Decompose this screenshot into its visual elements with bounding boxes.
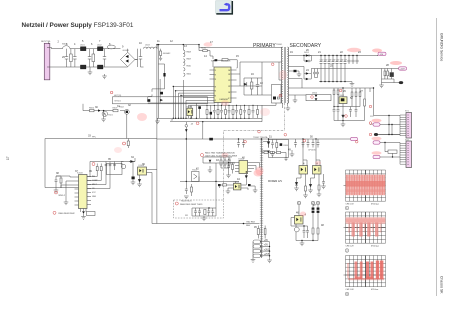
- diode D625: [309, 182, 312, 190]
- ground mid: [184, 196, 189, 199]
- op-amp IC605 standby controller: [235, 159, 252, 174]
- svg-text:IC680: IC680: [187, 106, 193, 108]
- wire snubber rails: [244, 62, 262, 95]
- node oval in3: [373, 141, 380, 144]
- wire t602 right cluster: [263, 140, 288, 158]
- svg-text:+12V: +12V: [400, 68, 405, 70]
- node +5V(S) output oval: [377, 52, 386, 56]
- svg-text:GND: GND: [92, 196, 97, 198]
- diode D641: [267, 151, 270, 154]
- capacitor C662 black: [294, 70, 297, 72]
- capacitor C628 C629: [303, 226, 309, 238]
- svg-text:C53: C53: [328, 60, 331, 62]
- bridge rectifier GL601: [121, 49, 135, 67]
- resistor chain sec: [262, 149, 286, 156]
- svg-text:CH1 5.0V: CH1 5.0V: [346, 289, 355, 291]
- ground opto606: [226, 191, 231, 194]
- wire pfc bottom pins: [81, 209, 87, 213]
- inductor L603: [144, 45, 158, 49]
- resistor R608: [127, 139, 129, 149]
- ground sec chain: [290, 150, 295, 157]
- ground T602 right: [267, 260, 272, 263]
- resistor R603 startup: [159, 49, 171, 61]
- annotation smudges pink: [114, 42, 402, 216]
- capacitor bank C651-C657: [320, 56, 347, 82]
- wire vcc rail below IC601: [200, 103, 276, 105]
- ground regulator: [341, 121, 346, 127]
- svg-text:HOT(S): HOT(S): [114, 95, 121, 97]
- capacitor C625: [285, 156, 288, 161]
- resistor network CR30: [382, 69, 400, 86]
- capacitor C609 black: [160, 92, 163, 95]
- zener D624: [295, 182, 298, 188]
- capacitor C620: [227, 163, 235, 173]
- optocoupler IC608: [313, 166, 322, 175]
- wire opto606 pins: [228, 181, 248, 191]
- title Netzteil / Power Supply: [22, 22, 134, 29]
- wire standby feed row: [203, 157, 235, 208]
- label cap bank values: [320, 60, 347, 62]
- capacitor C612 trio: [105, 165, 116, 166]
- capacitor C614 left: [55, 176, 61, 186]
- svg-text:WS1-2: WS1-2: [59, 195, 66, 197]
- ground pfc left2: [64, 190, 69, 205]
- svg-text:4: 4: [215, 86, 216, 88]
- wire ic605 right: [252, 163, 260, 171]
- wire opto610 out: [189, 109, 200, 118]
- node circle C633: [185, 125, 188, 128]
- node circled g1: [345, 206, 349, 210]
- diode D602 snubber: [244, 82, 247, 86]
- wire regulator bottom rail: [334, 120, 365, 122]
- diode D604: [129, 158, 135, 163]
- capacitor C660 C661: [313, 69, 319, 78]
- svg-text:14: 14: [228, 70, 230, 72]
- capacitor C622: [185, 186, 188, 194]
- component SP601 box: [388, 150, 397, 153]
- wire oval to bundle: [380, 124, 400, 126]
- resistor pair reg top: [333, 90, 339, 107]
- resistor R606: [89, 107, 95, 111]
- svg-text:C57: C57: [344, 60, 347, 62]
- svg-text:3: 3: [215, 79, 216, 81]
- resistor column PFC right: [87, 164, 110, 189]
- resistor R623: [191, 184, 193, 196]
- diode D620: [245, 174, 248, 182]
- node oval in4: [373, 155, 380, 158]
- svg-text:C54: C54: [332, 60, 335, 62]
- wire T602 taps: [261, 242, 270, 260]
- wire oval3 to bundle: [380, 143, 400, 144]
- svg-text:IC603: IC603: [77, 172, 83, 174]
- capacitor C613 black: [132, 177, 135, 180]
- svg-text:+5V: +5V: [264, 245, 269, 247]
- junction dots mid: [186, 138, 263, 182]
- junction dots ST1: [388, 115, 392, 135]
- diode D603: [98, 109, 101, 111]
- svg-text:R660 R661 R662 TL431: R660 R661 R662 TL431: [180, 204, 203, 206]
- node red circle ic601gnd: [196, 122, 199, 125]
- svg-text:R640 R641 R642: R640 R641 R642: [59, 213, 76, 215]
- label +B tiny: [171, 120, 194, 126]
- capacitor C601 X2: [65, 49, 68, 67]
- resistor R605 snubber: [251, 78, 253, 95]
- capacitor C604 Y: [103, 49, 106, 67]
- capacitor C624: [242, 139, 245, 148]
- connector ST1: [405, 110, 412, 138]
- ground pfc bottom: [81, 214, 86, 219]
- junction dots secondary rail: [303, 55, 357, 83]
- ground aux pin2: [293, 100, 298, 103]
- wire pfc vcc row: [90, 162, 135, 177]
- svg-text:M 10.0µs: M 10.0µs: [371, 246, 379, 248]
- ground rail secondary caps: [319, 82, 352, 84]
- label T602 taps red: [264, 240, 270, 256]
- svg-text:D656: D656: [312, 93, 318, 95]
- junction dot r610: [198, 44, 199, 45]
- tick grid1: [344, 185, 346, 187]
- ground opto cluster: [294, 186, 326, 198]
- ground mains filter: [88, 67, 93, 75]
- resistor R630: [218, 184, 228, 188]
- wire SP601: [385, 143, 393, 158]
- resistor R602: [92, 49, 95, 67]
- wire N bottom: [50, 66, 128, 68]
- resistor R627: [318, 185, 320, 194]
- resistor R620: [232, 163, 234, 174]
- diode D651 D652: [304, 52, 311, 63]
- choke L601 common-mode: [80, 45, 86, 69]
- svg-text:M 2.0ms: M 2.0ms: [371, 289, 378, 291]
- svg-text:CH1 0.5V: CH1 0.5V: [346, 204, 355, 206]
- ground lower cluster: [300, 243, 305, 246]
- node black oval NC: [399, 81, 403, 84]
- node circled g3: [345, 292, 349, 296]
- shield box NT601: [113, 95, 208, 104]
- wire C613: [132, 162, 134, 183]
- junction dot relay: [103, 110, 104, 111]
- svg-text:TR601: TR601: [276, 44, 283, 46]
- transformer TR601 primary winding: [281, 47, 282, 103]
- pin labels pfc: [92, 176, 98, 198]
- svg-text:R610: R610: [201, 48, 207, 50]
- svg-text:+9V: +9V: [264, 240, 269, 242]
- wire left pfc pins: [56, 176, 75, 190]
- svg-text:R609: R609: [187, 59, 191, 61]
- ground T601: [101, 117, 106, 122]
- wire second bus: [158, 44, 160, 49]
- capacitor C626: [322, 174, 325, 186]
- svg-text:11: 11: [228, 86, 230, 88]
- wire opto out: [147, 170, 157, 224]
- fuse SI601: [62, 44, 70, 49]
- wire lower cluster rails: [291, 226, 318, 243]
- ground standby row: [208, 170, 213, 173]
- ground D605: [137, 184, 142, 187]
- svg-text:S606: S606: [187, 74, 191, 76]
- transformer T602 windings: [253, 240, 261, 258]
- svg-text:C684: C684: [283, 145, 289, 147]
- node red test point: [110, 91, 113, 94]
- junction dots ST2: [384, 142, 393, 158]
- svg-text:PRIMARY: PRIMARY: [253, 43, 276, 49]
- waveform 1 red band: [346, 175, 386, 196]
- node circled 2: [311, 201, 315, 205]
- waveform 3 red U shapes: [347, 261, 384, 281]
- capacitor C632 black: [198, 106, 201, 109]
- graph grid 2: [346, 212, 386, 243]
- transformer TR601 secondary winding: [287, 47, 288, 103]
- svg-text:R601 7805 TDA16846 2SK2545: R601 7805 TDA16846 2SK2545: [205, 152, 236, 155]
- transistor T602: [119, 107, 129, 115]
- resistor R604 above ic: [222, 59, 228, 61]
- svg-text:R606: R606: [89, 107, 95, 109]
- svg-text:+3V3: +3V3: [264, 249, 270, 251]
- ground C630: [251, 186, 258, 193]
- junction dots vcc rail: [206, 105, 253, 119]
- resistor R610 startup top: [199, 45, 213, 59]
- capacitor C603: [88, 49, 91, 67]
- capacitor C608 black: [147, 99, 150, 102]
- wire T602 left rail: [252, 242, 254, 260]
- wire PFC feed: [45, 138, 157, 140]
- wire hv bus vertical pair: [157, 44, 159, 224]
- wire aux to ic pins: [148, 64, 215, 103]
- tick grid3: [344, 274, 346, 276]
- annotation red text blocks: [59, 152, 256, 224]
- wire +12V rail: [311, 68, 398, 70]
- wire relay branch: [83, 104, 125, 111]
- diode D655: [342, 107, 345, 121]
- ground T602 left: [251, 260, 256, 263]
- junction dots reg: [333, 87, 374, 121]
- svg-text:R624 R625: R624 R625: [181, 201, 192, 203]
- svg-text:T601: T601: [108, 115, 114, 117]
- svg-text:COMP: COMP: [92, 180, 98, 182]
- wire hv drop standby: [185, 122, 187, 182]
- capacitor C611 snubber: [256, 78, 259, 95]
- optocoupler IC610: [187, 106, 193, 115]
- wire PFC box left: [45, 139, 79, 188]
- node circled 3: [316, 201, 320, 205]
- node +12V oval: [399, 67, 407, 71]
- junction dots lower: [301, 225, 313, 241]
- resistor R621: [257, 226, 259, 239]
- relay box K601: [107, 163, 123, 174]
- wire Y-cap net: [157, 138, 351, 140]
- resistor R651 tall: [364, 99, 366, 121]
- svg-text:1: 1: [215, 70, 216, 72]
- diode D623: [267, 139, 270, 147]
- wire opto columns: [303, 139, 320, 166]
- svg-text:6: 6: [215, 95, 216, 97]
- ground transformer: [286, 106, 291, 111]
- optocoupler IC606: [234, 182, 241, 190]
- label grid1 scale: [346, 204, 379, 206]
- svg-text:C51: C51: [320, 60, 323, 62]
- svg-text:Chassis SK: Chassis SK: [440, 276, 444, 294]
- capacitor C623: [237, 139, 240, 148]
- svg-text:NETZTEIL: NETZTEIL: [41, 41, 52, 43]
- wire L phase top: [50, 48, 121, 49]
- svg-text:GL601: GL601: [123, 50, 130, 52]
- component row under IC601: [206, 105, 259, 118]
- capacitor C602: [73, 49, 76, 67]
- wire DC bus top: [141, 44, 283, 67]
- svg-text:NT601: NT601: [115, 101, 122, 103]
- ground secondary: [350, 84, 355, 87]
- annotation red circle marks: [53, 63, 372, 214]
- resistor R643: [276, 140, 278, 152]
- optocoupler IC604: [138, 165, 147, 175]
- wire secondary 12V branch: [288, 67, 311, 80]
- resistor R607: [113, 107, 119, 111]
- resistor R626: [305, 186, 307, 195]
- wire bridge output: [135, 49, 138, 67]
- label grid2 scale: [346, 246, 379, 248]
- resistor row standby: [220, 160, 230, 168]
- svg-text:12: 12: [228, 80, 230, 82]
- capacitor cluster in dashed box: [185, 207, 216, 221]
- wire gnd rail2: [170, 118, 262, 139]
- snubber loop D656: [306, 93, 331, 101]
- wire secondary +5V rail: [288, 55, 378, 57]
- svg-text:M 10.0µs: M 10.0µs: [371, 204, 379, 206]
- label grid3 scale: [346, 289, 379, 291]
- svg-text:D651: D651: [304, 52, 310, 54]
- svg-text:GRUNDIG Service: GRUNDIG Service: [440, 33, 444, 61]
- wire primary gnd rail ext: [189, 105, 263, 118]
- svg-text:2: 2: [215, 75, 216, 77]
- wire gnd to bundle: [378, 134, 400, 136]
- ground Y caps: [102, 74, 107, 79]
- transistor T603: [121, 162, 126, 169]
- ground C613: [131, 182, 136, 185]
- optocoupler IC607: [299, 166, 308, 175]
- dashed box W601 region: [174, 200, 224, 218]
- junction dots standby: [228, 162, 247, 173]
- svg-text:PFC: PFC: [92, 136, 97, 138]
- wire T602 collector down: [126, 114, 128, 138]
- svg-text:13: 13: [228, 74, 230, 76]
- svg-text:10: 10: [228, 92, 230, 94]
- svg-text:C55: C55: [336, 60, 339, 62]
- isolation dotted path: [224, 103, 285, 200]
- svg-text:R610: R610: [187, 66, 191, 68]
- capacitor C630 black: [248, 184, 251, 186]
- svg-text:400VAC: 400VAC: [163, 52, 171, 55]
- wire standby bottom rail: [152, 223, 260, 225]
- capacitor C605 Y: [107, 45, 115, 49]
- svg-text:IC602: IC602: [339, 95, 345, 97]
- svg-text:CH1 0.2V: CH1 0.2V: [346, 246, 355, 248]
- inductor L604 aux winding: [183, 50, 185, 76]
- svg-text:T602: T602: [119, 107, 125, 109]
- capacitor C631 black: [163, 73, 165, 77]
- node oval GND-S: [351, 137, 358, 140]
- node oval in2: [373, 123, 380, 126]
- node black oval gnd: [374, 133, 378, 136]
- page frame right rule: [436, 18, 438, 296]
- wire to ST1 top: [374, 115, 401, 117]
- graph grid 1: [346, 170, 386, 201]
- ground pfc left: [54, 186, 59, 193]
- connector BU601 mains input: [44, 43, 50, 80]
- wire transformer left pins: [279, 62, 282, 95]
- diode D605: [138, 175, 141, 184]
- op-amp IC601 power switcher: [210, 61, 237, 106]
- capacitor C607: [139, 49, 142, 67]
- wire regulator top rail: [334, 88, 374, 116]
- svg-text:R62 R63: R62 R63: [247, 221, 256, 223]
- transistor T605: [294, 224, 299, 241]
- svg-text:C607 C611 TL431 SFH617 LM358: C607 C611 TL431 SFH617 LM358: [205, 156, 238, 158]
- graph grid 3: [346, 256, 386, 287]
- svg-text:+2V5: +2V5: [264, 254, 270, 256]
- transistor box T604: [192, 170, 200, 182]
- tick grid2: [344, 227, 346, 229]
- capacitor row reg: [333, 107, 358, 121]
- capacitor C684 black: [280, 143, 283, 146]
- capacitor C627 black pair: [312, 208, 320, 213]
- svg-text:Netzteil / Power Supply FSP139: Netzteil / Power Supply FSP139-3F01: [22, 22, 134, 29]
- op-amp IC603 PFC controller: [75, 172, 92, 208]
- wire regulator mid rail: [334, 106, 360, 108]
- diode D606: [82, 211, 85, 214]
- resistor R628 R629: [312, 228, 319, 241]
- wire aux drops: [173, 45, 196, 119]
- component box W601: [87, 212, 96, 216]
- capacitor C610 above ic: [215, 59, 218, 61]
- waveform 2 red pulses: [346, 217, 386, 237]
- diode D653 D654: [306, 72, 309, 80]
- ground aux pin: [297, 74, 302, 77]
- wire drain to transformer: [237, 62, 280, 86]
- ground rail primary: [157, 117, 200, 119]
- svg-text:IC606: IC606: [234, 182, 240, 184]
- junction dots ycap: [186, 138, 317, 140]
- junction dots T602: [260, 241, 270, 257]
- wire ic605 left gnd: [226, 172, 231, 178]
- wire ic top loop: [213, 60, 237, 68]
- wire transformer bottom pins: [283, 103, 288, 108]
- node red circle b: [123, 142, 126, 145]
- label rail voltages: [246, 225, 251, 227]
- label winding taps: [187, 52, 191, 76]
- node circled g2: [345, 249, 349, 253]
- junction dots aux: [156, 44, 203, 123]
- junction dot sb rail: [243, 223, 245, 225]
- capacitor C658 C659: [348, 56, 359, 65]
- capacitor CY601 black: [209, 138, 213, 141]
- ground CR30: [379, 85, 384, 88]
- wire bundle ST2 pins: [400, 144, 406, 165]
- diode D640: [267, 141, 270, 144]
- resistor reg right top: [351, 92, 361, 107]
- diode D601: [160, 99, 163, 102]
- resistor R601: [70, 49, 73, 67]
- diode D621: [209, 160, 212, 163]
- wire bundle ST1 pins: [400, 115, 406, 136]
- svg-text:CP1005: CP1005: [308, 149, 316, 151]
- svg-text:C52: C52: [324, 60, 327, 62]
- ground primary: [155, 118, 160, 124]
- wire lower opto columns: [291, 205, 318, 228]
- svg-text:C56: C56: [340, 60, 343, 62]
- choke L602 common-mode: [97, 45, 103, 69]
- resistor R622: [264, 226, 266, 239]
- regulator IC602: [339, 95, 348, 104]
